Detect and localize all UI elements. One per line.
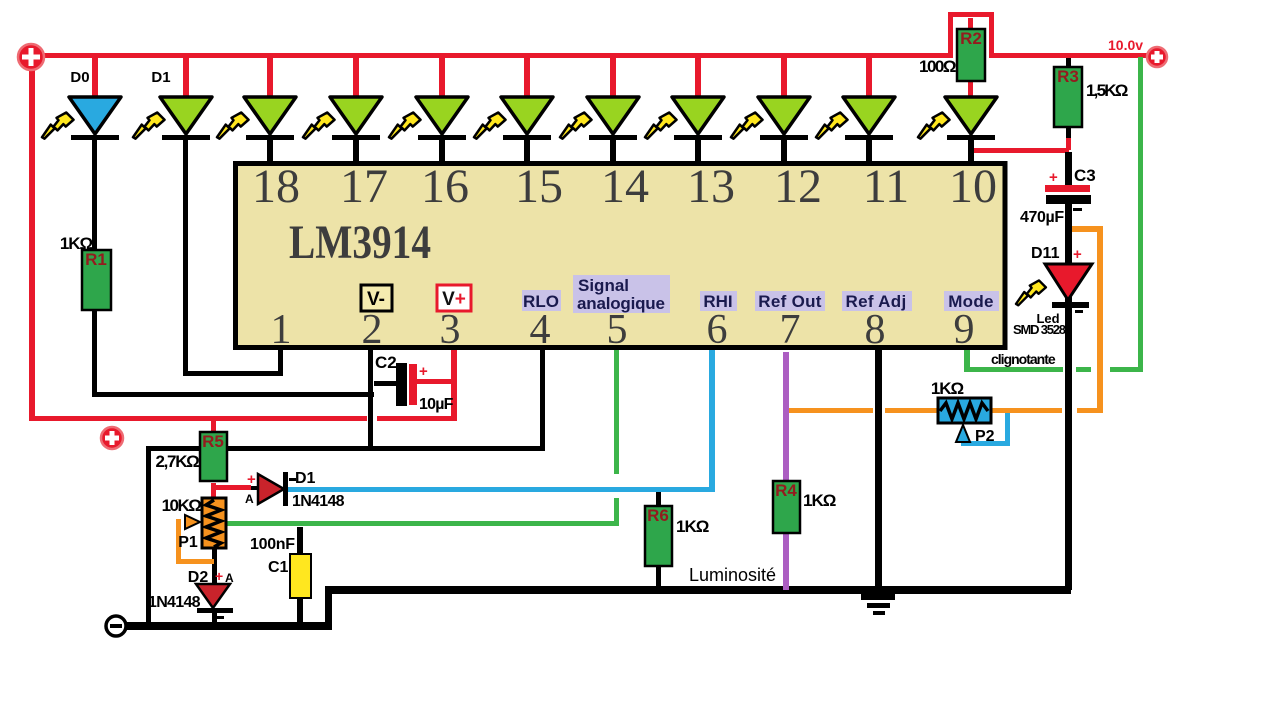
svg-text:10µF: 10µF xyxy=(419,396,454,413)
svg-text:6: 6 xyxy=(707,307,728,353)
svg-text:2: 2 xyxy=(362,307,383,353)
svg-text:1N4148: 1N4148 xyxy=(148,594,201,611)
svg-text:+: + xyxy=(1049,169,1058,186)
svg-text:D0: D0 xyxy=(70,69,89,86)
svg-text:R3: R3 xyxy=(1057,67,1079,86)
svg-text:A: A xyxy=(245,492,254,506)
svg-text:RHI: RHI xyxy=(703,292,732,311)
svg-text:470µF: 470µF xyxy=(1020,209,1064,226)
svg-text:D2: D2 xyxy=(188,569,209,586)
svg-text:1KΩ: 1KΩ xyxy=(931,379,964,398)
svg-text:18: 18 xyxy=(252,160,300,213)
svg-text:16: 16 xyxy=(421,160,469,213)
svg-text:+: + xyxy=(1073,246,1082,263)
svg-text:P1: P1 xyxy=(178,534,198,551)
svg-text:R2: R2 xyxy=(960,29,982,48)
svg-text:RLO: RLO xyxy=(523,292,559,311)
svg-text:C2: C2 xyxy=(375,353,397,372)
svg-text:9: 9 xyxy=(954,307,975,353)
svg-text:7: 7 xyxy=(780,307,801,353)
svg-text:4: 4 xyxy=(530,307,551,353)
svg-text:R6: R6 xyxy=(647,506,669,525)
svg-text:P2: P2 xyxy=(975,428,995,445)
svg-text:Ref Out: Ref Out xyxy=(758,292,822,311)
svg-text:2,7KΩ: 2,7KΩ xyxy=(155,452,199,471)
svg-text:13: 13 xyxy=(687,160,735,213)
svg-text:D11: D11 xyxy=(1031,245,1060,262)
svg-text:1KΩ: 1KΩ xyxy=(60,234,93,253)
svg-text:SMD 3528: SMD 3528 xyxy=(1013,322,1066,337)
svg-text:3: 3 xyxy=(440,307,461,353)
svg-text:11: 11 xyxy=(863,160,909,213)
svg-text:Signal: Signal xyxy=(578,276,629,295)
svg-text:10KΩ: 10KΩ xyxy=(162,496,202,515)
svg-text:Mode: Mode xyxy=(948,292,994,311)
svg-text:100nF: 100nF xyxy=(250,536,295,553)
svg-text:1KΩ: 1KΩ xyxy=(676,517,709,536)
svg-text:LM3914: LM3914 xyxy=(289,216,431,269)
svg-text:14: 14 xyxy=(601,160,649,213)
svg-text:A: A xyxy=(225,571,234,585)
svg-text:12: 12 xyxy=(774,160,822,213)
svg-text:Luminosité: Luminosité xyxy=(689,565,776,585)
svg-text:100Ω: 100Ω xyxy=(919,57,956,76)
svg-text:clignotante: clignotante xyxy=(991,351,1056,367)
svg-text:1N4148: 1N4148 xyxy=(292,493,345,510)
svg-text:8: 8 xyxy=(865,307,886,353)
svg-text:1KΩ: 1KΩ xyxy=(803,491,836,510)
svg-text:R5: R5 xyxy=(202,432,224,451)
svg-text:+: + xyxy=(247,471,256,488)
svg-text:Ref Adj: Ref Adj xyxy=(846,292,907,311)
svg-text:D1: D1 xyxy=(295,470,316,487)
svg-text:10.0v: 10.0v xyxy=(1108,37,1143,53)
svg-text:17: 17 xyxy=(340,160,388,213)
svg-text:R4: R4 xyxy=(775,481,797,500)
svg-text:+: + xyxy=(419,363,428,380)
svg-text:analogique: analogique xyxy=(577,294,665,313)
svg-text:C3: C3 xyxy=(1074,166,1096,185)
svg-text:C1: C1 xyxy=(268,559,289,576)
svg-text:1: 1 xyxy=(271,307,292,353)
svg-text:V+: V+ xyxy=(442,289,466,310)
svg-text:V-: V- xyxy=(367,289,385,310)
svg-text:D1: D1 xyxy=(151,69,170,86)
svg-text:+: + xyxy=(215,568,223,584)
svg-text:15: 15 xyxy=(515,160,563,213)
svg-text:5: 5 xyxy=(607,307,628,353)
svg-text:1,5KΩ: 1,5KΩ xyxy=(1086,81,1128,100)
svg-text:10: 10 xyxy=(949,160,997,213)
